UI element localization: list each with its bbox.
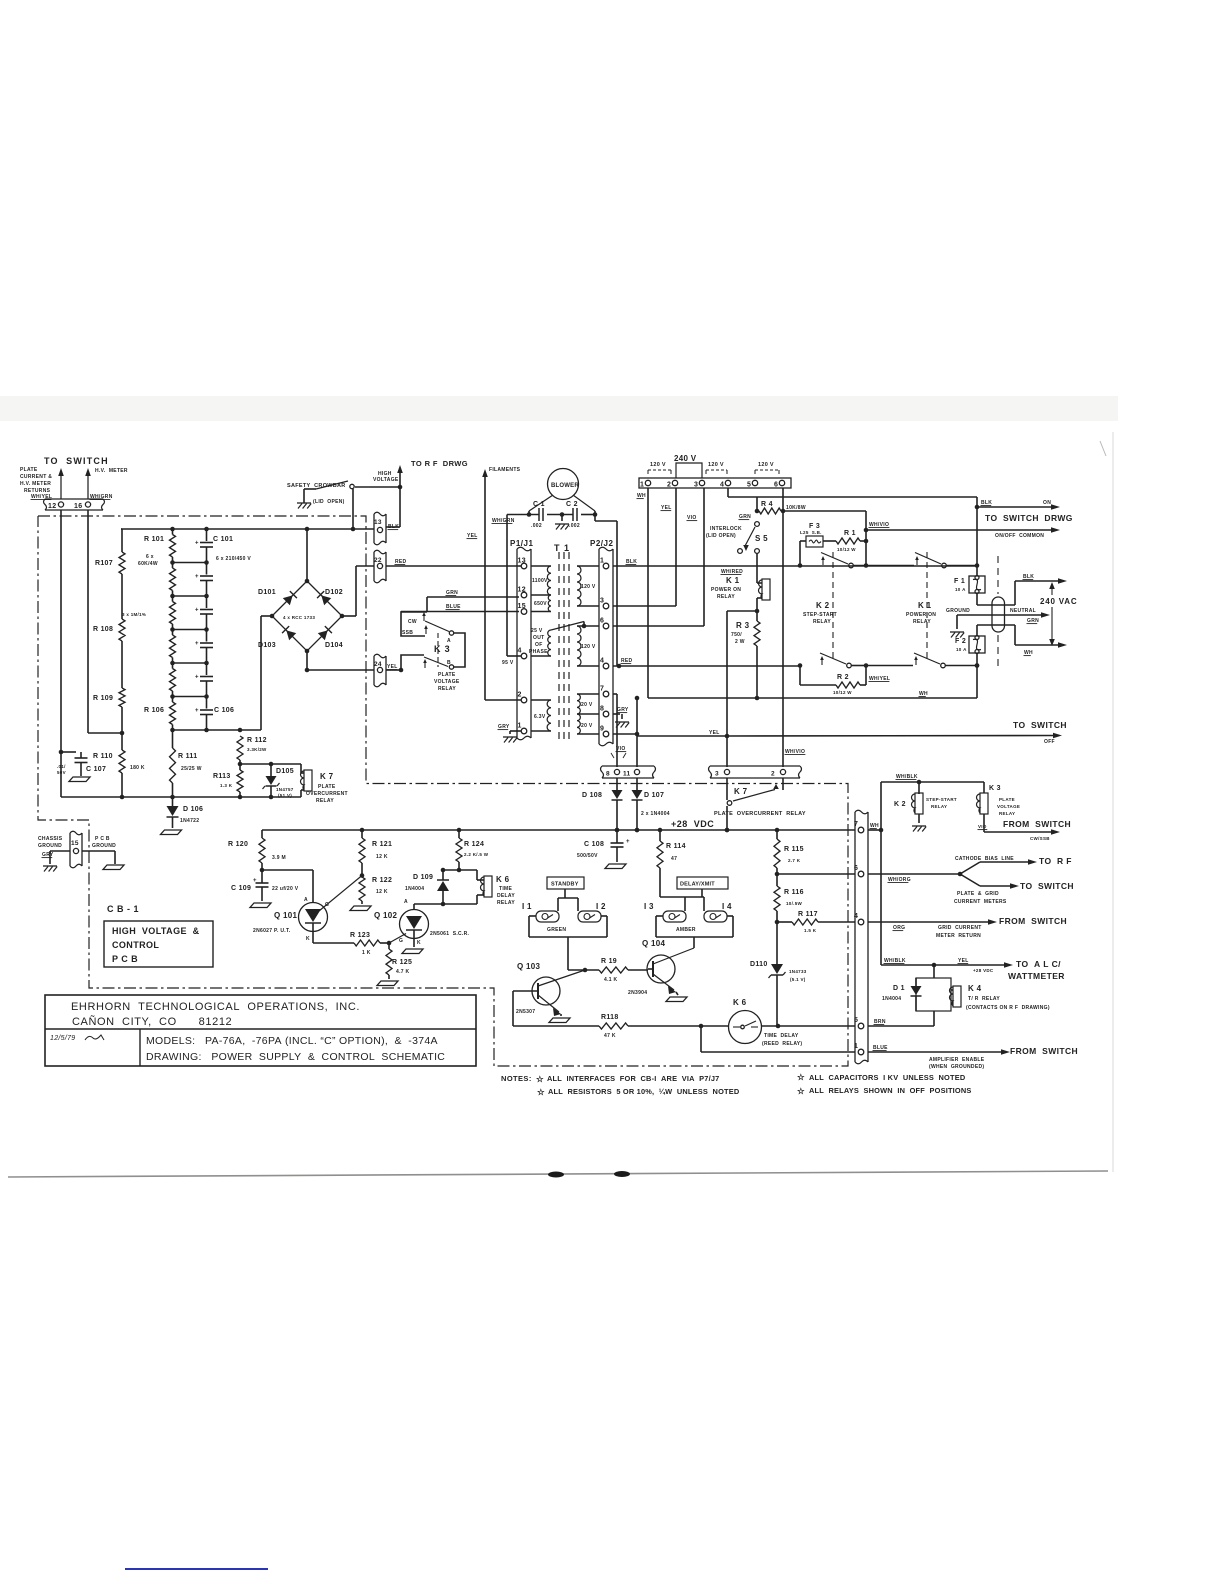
svg-text:WH/YEL: WH/YEL — [869, 676, 890, 682]
svg-text:5: 5 — [747, 482, 751, 489]
svg-text:1 K: 1 K — [362, 950, 371, 956]
svg-text:25/25 W: 25/25 W — [181, 766, 202, 772]
svg-text:3: 3 — [600, 598, 604, 605]
svg-text:6: 6 — [600, 618, 604, 625]
svg-text:D105: D105 — [276, 768, 294, 775]
svg-text:CHASSIS: CHASSIS — [38, 836, 63, 842]
svg-text:R 115: R 115 — [784, 846, 804, 853]
svg-text:TO A L C/: TO A L C/ — [1016, 959, 1061, 969]
svg-text:R 109: R 109 — [93, 695, 113, 702]
svg-text:P C B: P C B — [112, 954, 138, 964]
svg-text:K: K — [306, 936, 310, 942]
svg-text:AMPLIFIER ENABLE: AMPLIFIER ENABLE — [929, 1057, 985, 1063]
svg-text:120 V: 120 V — [758, 462, 774, 468]
svg-text:ORG: ORG — [893, 925, 905, 931]
svg-text:A: A — [304, 897, 308, 903]
svg-text:GRN: GRN — [739, 514, 751, 520]
svg-text:CURRENT METERS: CURRENT METERS — [954, 899, 1007, 905]
svg-text:8: 8 — [606, 771, 610, 778]
svg-text:R 116: R 116 — [784, 889, 804, 896]
svg-text:.002: .002 — [531, 523, 542, 529]
svg-text:G: G — [399, 938, 403, 944]
svg-text:3.9 M: 3.9 M — [272, 855, 286, 861]
svg-text:K 3: K 3 — [989, 785, 1001, 792]
svg-text:VIO: VIO — [687, 515, 697, 521]
svg-text:METER RETURN: METER RETURN — [936, 933, 981, 939]
svg-text:Q 101: Q 101 — [274, 911, 298, 920]
svg-text:4: 4 — [854, 913, 858, 920]
svg-text:+28 VDC: +28 VDC — [973, 968, 994, 973]
svg-text:+28 VDC: +28 VDC — [671, 819, 714, 829]
svg-text:K 6: K 6 — [496, 875, 510, 884]
svg-text:TO R F: TO R F — [1039, 856, 1072, 866]
svg-text:WH: WH — [919, 691, 928, 697]
svg-text:K 1: K 1 — [726, 576, 740, 585]
svg-text:R 108: R 108 — [93, 626, 113, 633]
svg-text:+: + — [195, 708, 199, 714]
svg-text:R 4: R 4 — [761, 501, 773, 508]
svg-text:3 x 1M/1%: 3 x 1M/1% — [122, 612, 146, 617]
svg-text:OVERCURRENT: OVERCURRENT — [306, 791, 348, 797]
svg-text:DELAY: DELAY — [497, 893, 515, 899]
svg-text:D110: D110 — [750, 961, 768, 968]
svg-text:D 108: D 108 — [582, 792, 602, 799]
svg-text:C 2: C 2 — [566, 501, 578, 508]
svg-text:15: 15 — [71, 840, 79, 847]
svg-text:+: + — [195, 608, 199, 614]
svg-text:ALL CAPACITORS I KV UNLESS: ALL CAPACITORS I KV UNLESS NOTED — [809, 1073, 966, 1082]
svg-text:Q 103: Q 103 — [517, 962, 541, 971]
svg-text:WH/ORG: WH/ORG — [888, 877, 911, 883]
svg-text:C 109: C 109 — [231, 885, 251, 892]
svg-text:R 110: R 110 — [93, 753, 113, 760]
svg-text:6: 6 — [774, 482, 778, 489]
svg-text:+: + — [195, 574, 199, 580]
svg-text:ON: ON — [1043, 500, 1051, 506]
svg-text:TO SWITCH DRWG: TO SWITCH DRWG — [985, 513, 1073, 523]
svg-text:P1/J1: P1/J1 — [510, 539, 533, 548]
svg-text:3: 3 — [694, 482, 698, 489]
svg-text:2 W: 2 W — [735, 639, 745, 645]
svg-text:L25 S.B.: L25 S.B. — [800, 530, 822, 535]
svg-text:STEP-START: STEP-START — [926, 797, 957, 802]
svg-text:12: 12 — [518, 587, 526, 594]
svg-text:OF: OF — [535, 642, 543, 648]
svg-text:2N5307: 2N5307 — [516, 1009, 535, 1015]
svg-text:☆: ☆ — [536, 1074, 545, 1084]
svg-text:B: B — [447, 660, 451, 666]
svg-text:R 120: R 120 — [228, 841, 248, 848]
svg-text:+: + — [195, 675, 199, 681]
svg-text:CW: CW — [408, 619, 417, 625]
svg-text:1: 1 — [640, 482, 644, 489]
svg-text:TIME: TIME — [499, 886, 513, 892]
svg-text:R 106: R 106 — [144, 707, 164, 714]
svg-text:TIME DELAY: TIME DELAY — [764, 1033, 799, 1039]
svg-text:12: 12 — [48, 503, 56, 510]
svg-text:+: + — [195, 641, 199, 647]
svg-text:RELAY: RELAY — [999, 811, 1015, 816]
svg-text:YEL: YEL — [387, 664, 398, 670]
svg-text:C 101: C 101 — [213, 536, 233, 543]
svg-text:P2/J2: P2/J2 — [590, 539, 613, 548]
svg-text:DELAY/XMIT: DELAY/XMIT — [680, 882, 715, 888]
svg-text:10/.5W: 10/.5W — [786, 901, 803, 906]
svg-text:GREEN: GREEN — [547, 927, 566, 933]
svg-text:2 x 1N4004: 2 x 1N4004 — [641, 811, 670, 817]
svg-text:RELAY: RELAY — [813, 619, 831, 625]
svg-text:2N3904: 2N3904 — [628, 990, 647, 996]
svg-text:D 107: D 107 — [644, 792, 664, 799]
svg-text:4: 4 — [600, 658, 604, 665]
svg-text:R107: R107 — [95, 560, 113, 567]
svg-text:2: 2 — [518, 692, 522, 699]
svg-text:1.5 K: 1.5 K — [804, 928, 817, 933]
svg-text:D104: D104 — [325, 642, 343, 649]
svg-text:K 4: K 4 — [968, 984, 982, 993]
svg-text:PHASE: PHASE — [529, 649, 548, 655]
svg-text:4: 4 — [720, 482, 724, 489]
svg-text:☆: ☆ — [537, 1087, 546, 1097]
svg-text:20 V: 20 V — [581, 702, 593, 708]
svg-text:10/12 W: 10/12 W — [833, 690, 852, 695]
svg-text:POWER ON: POWER ON — [711, 587, 741, 593]
svg-text:HIGH VOLTAGE &: HIGH VOLTAGE & — [112, 926, 200, 936]
svg-text:WH: WH — [1024, 650, 1033, 656]
svg-text:R 123: R 123 — [350, 932, 370, 939]
svg-text:K: K — [417, 940, 421, 946]
svg-text:Q 102: Q 102 — [374, 911, 398, 920]
svg-text:T 1: T 1 — [554, 543, 570, 553]
svg-text:BRN: BRN — [874, 1019, 886, 1025]
svg-text:WH: WH — [637, 493, 646, 499]
svg-text:MODELS: PA-76A, -76PA (INCL: MODELS: PA-76A, -76PA (INCL. “C” OPTION)… — [146, 1035, 438, 1047]
svg-text:R 124: R 124 — [464, 841, 484, 848]
svg-text:22: 22 — [374, 557, 382, 564]
svg-text:YEL: YEL — [661, 505, 672, 511]
svg-text:12 K: 12 K — [376, 889, 388, 895]
svg-text:I 4: I 4 — [722, 902, 732, 911]
svg-text:R 19: R 19 — [601, 958, 617, 965]
svg-text:CW/SSB: CW/SSB — [1030, 836, 1050, 841]
svg-text:1100V: 1100V — [532, 578, 548, 584]
svg-text:BLOWER: BLOWER — [551, 483, 579, 489]
svg-text:CAÑON CITY, CO 81212: CAÑON CITY, CO 81212 — [72, 1015, 232, 1028]
svg-text:K 2: K 2 — [816, 601, 830, 610]
svg-text:WH/BLK: WH/BLK — [896, 774, 918, 780]
svg-text:1N4004: 1N4004 — [882, 996, 901, 1002]
svg-text:47: 47 — [671, 856, 677, 862]
svg-text:WH: WH — [870, 823, 879, 829]
svg-text:R 125: R 125 — [392, 959, 412, 966]
svg-text:ALL RELAYS SHOWN IN OFF P: ALL RELAYS SHOWN IN OFF POSITIONS — [809, 1086, 972, 1095]
svg-text:12/5/79: 12/5/79 — [50, 1035, 75, 1042]
svg-text:A: A — [404, 899, 408, 905]
svg-text:☆: ☆ — [797, 1072, 806, 1082]
svg-text:CURRENT &: CURRENT & — [20, 474, 52, 480]
svg-text:(5.1 V): (5.1 V) — [790, 977, 806, 982]
svg-text:BLK: BLK — [388, 524, 399, 530]
svg-text:VOLTAGE: VOLTAGE — [434, 679, 460, 685]
svg-text:BLUE: BLUE — [873, 1045, 888, 1051]
svg-text:2.7 K: 2.7 K — [788, 858, 801, 863]
svg-text:R113: R113 — [213, 773, 231, 780]
svg-text:I 1: I 1 — [522, 902, 532, 911]
svg-text:TO SWITCH: TO SWITCH — [44, 456, 109, 466]
svg-text:6.3V: 6.3V — [534, 714, 546, 720]
svg-text:C 108: C 108 — [584, 841, 604, 848]
svg-text:120 V: 120 V — [708, 462, 724, 468]
svg-text:F 1: F 1 — [954, 578, 965, 585]
svg-text:K 2: K 2 — [894, 801, 906, 808]
svg-text:D 1: D 1 — [893, 985, 905, 992]
svg-text:10 A: 10 A — [955, 587, 966, 592]
svg-text:RELAY: RELAY — [497, 900, 515, 906]
svg-text:16: 16 — [74, 503, 82, 510]
svg-text:T/ R RELAY: T/ R RELAY — [968, 996, 1000, 1002]
svg-text:47 K: 47 K — [604, 1033, 616, 1039]
svg-text:(LID OPEN): (LID OPEN) — [313, 499, 345, 505]
svg-text:EHRHORN TECHNOLOGICAL OPERAT: EHRHORN TECHNOLOGICAL OPERATIONS, INC. — [71, 1001, 360, 1013]
svg-text:SSB: SSB — [402, 630, 413, 636]
svg-text:F 3: F 3 — [809, 523, 820, 530]
svg-text:7: 7 — [854, 821, 858, 828]
svg-text:9: 9 — [600, 726, 604, 733]
svg-text:WH/GRN: WH/GRN — [492, 518, 515, 524]
svg-text:RELAY: RELAY — [717, 594, 735, 600]
svg-text:2N6027 P. U.T.: 2N6027 P. U.T. — [253, 928, 291, 934]
svg-text:STEP-START: STEP-START — [803, 612, 837, 618]
svg-text:G: G — [325, 902, 329, 908]
svg-text:CATHODE BIAS LINE: CATHODE BIAS LINE — [955, 856, 1014, 862]
svg-text:F 2: F 2 — [955, 638, 966, 645]
svg-text:POWER ON: POWER ON — [906, 612, 936, 618]
svg-text:K 3: K 3 — [434, 644, 450, 654]
svg-text:1N4004: 1N4004 — [405, 886, 424, 892]
svg-text:GROUND: GROUND — [946, 608, 970, 614]
svg-text:3.3K/2W: 3.3K/2W — [247, 747, 267, 752]
svg-text:+: + — [195, 541, 199, 547]
svg-text:WH/VIO: WH/VIO — [869, 522, 889, 528]
svg-text:(CONTACTS ON R F DRAWING): (CONTACTS ON R F DRAWING) — [966, 1005, 1050, 1011]
svg-text:RELAY: RELAY — [316, 798, 334, 804]
svg-text:VOLTAGE: VOLTAGE — [997, 804, 1020, 809]
svg-text:NEUTRAL: NEUTRAL — [1010, 608, 1036, 614]
svg-text:GRN: GRN — [446, 590, 458, 596]
svg-text:K 1: K 1 — [918, 601, 932, 610]
svg-text:PLATE: PLATE — [318, 784, 336, 790]
svg-text:C B - 1: C B - 1 — [107, 904, 139, 914]
svg-text:R 2: R 2 — [837, 674, 849, 681]
svg-text:BLK: BLK — [1023, 574, 1034, 580]
svg-text:2N5061 S.C.R.: 2N5061 S.C.R. — [430, 931, 470, 937]
svg-text:YEL: YEL — [709, 730, 720, 736]
svg-text:1N4757: 1N4757 — [276, 787, 294, 792]
svg-text:22 uf/20 V: 22 uf/20 V — [272, 886, 299, 892]
svg-text:D 109: D 109 — [413, 874, 433, 881]
svg-text:FILAMENTS: FILAMENTS — [489, 467, 521, 473]
svg-text:4.1 K: 4.1 K — [604, 977, 618, 983]
svg-text:RELAY: RELAY — [438, 686, 456, 692]
svg-text:3: 3 — [715, 771, 719, 778]
svg-text:ON/OFF COMMON: ON/OFF COMMON — [995, 533, 1044, 539]
svg-text:95 V: 95 V — [502, 660, 514, 666]
svg-text:DRAWING: POWER SUPPLY & C: DRAWING: POWER SUPPLY & CONTROL SCHEMATI… — [146, 1051, 445, 1063]
svg-text:1: 1 — [518, 723, 522, 730]
svg-text:R 112: R 112 — [247, 737, 267, 744]
svg-text:CONTROL: CONTROL — [112, 940, 159, 950]
svg-text:GRY: GRY — [498, 724, 510, 730]
svg-text:4: 4 — [518, 648, 522, 655]
svg-text:240 VAC: 240 VAC — [1040, 597, 1077, 606]
svg-text:YEL: YEL — [958, 958, 969, 964]
svg-text:10 A: 10 A — [956, 647, 967, 652]
svg-text:K 7: K 7 — [320, 772, 334, 781]
svg-text:650V: 650V — [534, 601, 547, 607]
svg-text:15: 15 — [518, 603, 526, 610]
svg-text:ALL INTERFACES FOR CB-I AR: ALL INTERFACES FOR CB-I ARE VIA P7/J7 — [547, 1074, 719, 1083]
svg-text:FROM SWITCH: FROM SWITCH — [999, 916, 1067, 926]
svg-text:FROM SWITCH: FROM SWITCH — [1003, 819, 1071, 829]
svg-text:4.7 K: 4.7 K — [396, 969, 410, 975]
svg-text:R 117: R 117 — [798, 911, 818, 918]
svg-text:1.3 K: 1.3 K — [220, 783, 233, 788]
svg-text:PLATE & GRID: PLATE & GRID — [957, 891, 999, 897]
svg-text:VIO: VIO — [616, 746, 626, 752]
svg-text:25 V: 25 V — [531, 628, 543, 634]
svg-text:K 6: K 6 — [733, 998, 747, 1007]
svg-text:D102: D102 — [325, 589, 343, 596]
svg-text:1N4722: 1N4722 — [180, 818, 199, 824]
svg-text:WH/BLK: WH/BLK — [884, 958, 906, 964]
svg-text:STANDBY: STANDBY — [551, 882, 579, 888]
svg-text:24: 24 — [374, 661, 382, 668]
svg-text:(LID OPEN): (LID OPEN) — [706, 533, 736, 539]
svg-text:RED: RED — [395, 559, 407, 565]
svg-text:WATTMETER: WATTMETER — [1008, 971, 1065, 981]
svg-text:6: 6 — [854, 865, 858, 872]
svg-text:C 107: C 107 — [86, 766, 106, 773]
svg-text:180 K: 180 K — [130, 765, 145, 771]
svg-text:R118: R118 — [601, 1014, 619, 1021]
svg-text:AMBER: AMBER — [676, 927, 696, 933]
svg-text:GRY: GRY — [42, 852, 54, 858]
svg-text:5: 5 — [854, 1017, 858, 1024]
svg-text:☆: ☆ — [797, 1086, 806, 1096]
svg-text:TO R F DRWG: TO R F DRWG — [411, 459, 468, 468]
svg-text:TO SWITCH: TO SWITCH — [1013, 720, 1067, 730]
svg-text:2.2 K/.5 W: 2.2 K/.5 W — [464, 852, 489, 857]
svg-text:R 111: R 111 — [178, 753, 197, 760]
svg-text:WH/VIO: WH/VIO — [785, 749, 805, 755]
svg-text:R 3: R 3 — [736, 621, 750, 630]
svg-text:ALL RESISTORS 5 OR 10%, ¼W: ALL RESISTORS 5 OR 10%, ¼W UNLESS NOTED — [548, 1087, 740, 1096]
svg-text:BLUE: BLUE — [446, 604, 461, 610]
svg-text:R 1: R 1 — [844, 530, 856, 537]
svg-text:I 3: I 3 — [644, 902, 654, 911]
svg-text:GRN: GRN — [1027, 618, 1039, 624]
svg-text:C 1: C 1 — [533, 501, 545, 508]
svg-text:K 7: K 7 — [734, 787, 748, 796]
svg-text:VOLTAGE: VOLTAGE — [373, 477, 399, 483]
svg-text:.002: .002 — [569, 523, 580, 529]
svg-text:12 K: 12 K — [376, 854, 388, 860]
svg-text:7: 7 — [600, 686, 604, 693]
svg-text:P C B: P C B — [95, 836, 110, 842]
svg-text:RELAY: RELAY — [931, 804, 947, 809]
svg-text:2: 2 — [667, 482, 671, 489]
svg-text:120 V: 120 V — [650, 462, 666, 468]
svg-text:750/: 750/ — [731, 632, 742, 638]
svg-text:R 122: R 122 — [372, 877, 392, 884]
svg-text:GRID CURRENT: GRID CURRENT — [938, 925, 982, 931]
svg-text:13: 13 — [374, 519, 382, 526]
svg-text:R 101: R 101 — [144, 536, 164, 543]
svg-text:(REED RELAY): (REED RELAY) — [762, 1041, 802, 1047]
svg-text:8: 8 — [600, 706, 604, 713]
svg-text:+: + — [626, 839, 630, 845]
svg-text:INTERLOCK: INTERLOCK — [710, 526, 742, 532]
svg-text:10/12 W: 10/12 W — [837, 547, 856, 552]
svg-text:GRY: GRY — [617, 707, 629, 713]
svg-text:TO SWITCH: TO SWITCH — [1020, 881, 1074, 891]
svg-text:500/50V: 500/50V — [577, 853, 598, 859]
svg-text:S 5: S 5 — [755, 534, 768, 543]
svg-text:4 x RCC 1733: 4 x RCC 1733 — [283, 615, 315, 620]
svg-text:YEL: YEL — [467, 533, 478, 539]
svg-text:10K/8W: 10K/8W — [786, 505, 806, 511]
svg-text:NOTES:: NOTES: — [501, 1074, 532, 1083]
svg-text:240 V: 240 V — [674, 454, 697, 463]
svg-text:R 121: R 121 — [372, 841, 392, 848]
svg-text:+: + — [253, 878, 257, 884]
svg-text:PLATE: PLATE — [999, 797, 1015, 802]
svg-text:6 x: 6 x — [146, 554, 154, 560]
svg-text:1: 1 — [600, 558, 604, 565]
svg-text:GROUND: GROUND — [92, 843, 116, 849]
svg-text:(WHEN GROUNDED): (WHEN GROUNDED) — [929, 1064, 984, 1070]
svg-text:D101: D101 — [258, 589, 276, 596]
svg-text:R 114: R 114 — [666, 843, 686, 850]
svg-text:H.V. METER: H.V. METER — [20, 481, 51, 487]
svg-text:I 2: I 2 — [596, 902, 606, 911]
svg-text:11: 11 — [623, 771, 631, 778]
svg-text:RELAY: RELAY — [913, 619, 931, 625]
svg-text:WH/RED: WH/RED — [721, 569, 743, 575]
svg-text:FROM SWITCH: FROM SWITCH — [1010, 1046, 1078, 1056]
svg-text:6 x 210/450 V: 6 x 210/450 V — [216, 556, 251, 562]
svg-text:D 106: D 106 — [183, 806, 203, 813]
svg-text:13: 13 — [518, 558, 526, 565]
svg-text:BLK: BLK — [626, 559, 637, 565]
svg-text:PLATE: PLATE — [438, 672, 456, 678]
svg-text:OUT: OUT — [533, 635, 544, 641]
svg-text:1: 1 — [854, 1043, 858, 1050]
svg-text:VIO: VIO — [978, 824, 987, 829]
svg-text:H.V. METER: H.V. METER — [95, 468, 128, 474]
svg-text:C 106: C 106 — [214, 707, 234, 714]
svg-text:120 V: 120 V — [581, 584, 596, 590]
svg-text:OFF: OFF — [1044, 739, 1055, 745]
svg-text:1N4733: 1N4733 — [789, 969, 807, 974]
svg-text:2: 2 — [771, 771, 775, 778]
svg-text:BLK: BLK — [981, 500, 992, 506]
svg-text:GROUND: GROUND — [38, 843, 62, 849]
svg-text:PLATE: PLATE — [20, 467, 38, 473]
svg-text:20 V: 20 V — [581, 723, 593, 729]
svg-text:60K/4W: 60K/4W — [138, 561, 158, 567]
svg-text:RED: RED — [621, 658, 633, 664]
